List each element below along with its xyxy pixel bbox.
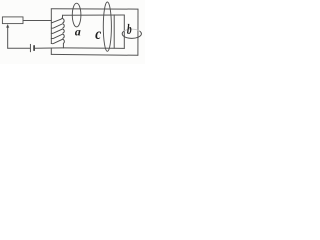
outer loop bottom wire xyxy=(51,53,138,56)
outer loop left vertical xyxy=(50,9,52,44)
inner loop top wire xyxy=(63,14,125,16)
outer loop right vertical xyxy=(137,9,139,55)
inner loop vertical 2 xyxy=(123,15,125,48)
wire box to left node xyxy=(23,20,51,22)
battery long plate xyxy=(29,44,31,52)
label b xyxy=(127,24,131,34)
rheostat box xyxy=(2,17,23,24)
junction vertical xyxy=(50,48,52,54)
ring b top arc (faint) xyxy=(124,29,139,31)
label a xyxy=(75,30,81,36)
outer loop top wire xyxy=(51,8,138,10)
battery short plate xyxy=(33,46,35,50)
label c xyxy=(95,32,101,40)
inner loop vertical 1 xyxy=(113,15,115,48)
ring a xyxy=(72,3,81,27)
ring c xyxy=(103,2,111,51)
arrow head xyxy=(6,25,8,28)
ring b bottom and ends xyxy=(122,31,141,38)
arrow shaft xyxy=(7,27,9,49)
wire to battery xyxy=(8,47,30,49)
wire battery to coil and inner loop bottom xyxy=(35,47,124,50)
coil helix xyxy=(51,15,64,48)
